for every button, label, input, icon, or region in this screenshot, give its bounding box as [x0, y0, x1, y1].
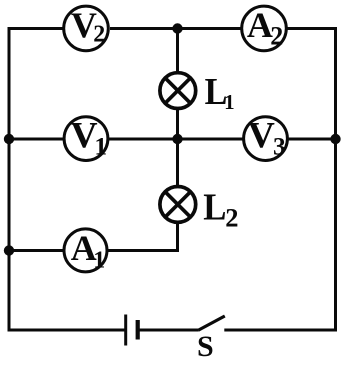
- wire bottom left segment: [8, 329, 126, 332]
- wire top middle segment: [110, 27, 241, 30]
- svg-text:L: L: [203, 186, 226, 228]
- ammeter A1 circle: [64, 229, 107, 272]
- wire center vertical top to L1: [176, 29, 179, 72]
- wire middle right segment: [289, 138, 338, 141]
- wire top left segment: [8, 27, 64, 30]
- junction dot A1 row left: [4, 245, 14, 255]
- wire center vertical node to L2: [176, 139, 179, 186]
- wire A1 row left segment: [8, 249, 64, 252]
- junction dot middle right: [330, 134, 340, 144]
- wire top right segment: [288, 27, 338, 30]
- wire center vertical L1 to node: [176, 110, 179, 140]
- lamp L2: [160, 187, 196, 223]
- wire bottom middle segment (battery to switch): [138, 329, 199, 332]
- battery long plate: [124, 315, 127, 346]
- switch S blade: [198, 316, 225, 330]
- junction dot middle center: [172, 134, 182, 144]
- wire bottom right segment: [224, 329, 337, 332]
- battery short plate: [136, 320, 140, 340]
- ammeter A2 circle: [242, 6, 287, 51]
- wire center vertical L2 to A1 row: [108, 224, 178, 251]
- junction dot middle left: [4, 134, 14, 144]
- svg-text:1: 1: [224, 90, 235, 114]
- wire right vertical: [334, 27, 337, 332]
- svg-text:S: S: [197, 330, 214, 363]
- wire middle center segment: [109, 138, 243, 141]
- voltmeter V1 circle: [64, 117, 108, 161]
- voltmeter V3 circle: [244, 117, 288, 161]
- junction dot top center: [172, 23, 182, 33]
- svg-text:2: 2: [225, 202, 238, 232]
- lamp L1: [160, 73, 196, 109]
- wire middle left segment: [8, 138, 64, 141]
- voltmeter V2 circle: [64, 6, 109, 51]
- wire left vertical: [8, 27, 11, 332]
